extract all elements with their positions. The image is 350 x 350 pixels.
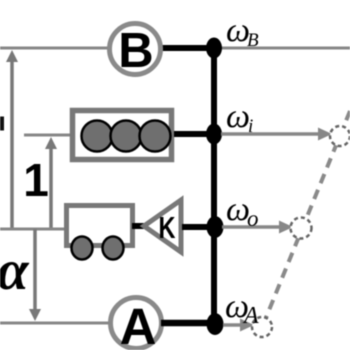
open circle i (projection point) <box>330 126 350 146</box>
wire: gray line left edge to circle B <box>0 47 110 50</box>
wire: gray line node B to right edge <box>216 47 350 50</box>
svg-text:A: A <box>120 298 157 350</box>
circle A <box>111 298 162 350</box>
cart (output carriage) <box>67 206 133 260</box>
gear circle 1 <box>82 121 113 152</box>
svg-text:B: B <box>118 24 153 78</box>
cart wheel 1 <box>72 237 93 260</box>
gray arrow node i to open circle i <box>221 128 332 141</box>
wire: black link circle B to node B <box>160 45 212 51</box>
open circle o (projection point) <box>291 218 312 239</box>
wire: black link K to node o <box>182 224 212 230</box>
dimension label fragment at left edge <box>0 117 4 131</box>
node i (dot) <box>206 124 222 145</box>
svg-text:ωi: ωi <box>226 98 253 137</box>
wire: gray line left edge to circle A <box>0 322 111 325</box>
dimension line x=35 (alpha, omega_o to A level) with down arrow <box>29 229 41 321</box>
node B (dot) <box>206 38 222 59</box>
dimension line x=12 (B to omega_o level) with up arrow <box>6 50 18 229</box>
horizontal gray connector at omega_o level, left <box>0 228 64 231</box>
amplifier K (left-pointing triangle) <box>144 200 181 252</box>
dimension line x=51 ("1", omega_i to omega_o level) with up arrow <box>45 137 57 229</box>
dashed lever line through open circles <box>263 111 350 325</box>
cart wheel 2 <box>103 237 124 260</box>
gear circle 2 <box>111 121 142 152</box>
svg-text:α: α <box>0 239 30 302</box>
circle B <box>110 24 161 79</box>
node B vertical lever bar <box>211 48 217 324</box>
svg-text:K: K <box>159 210 176 245</box>
wire: black link gear box to node i <box>174 131 212 137</box>
gear circle 3 <box>140 121 171 152</box>
svg-text:1: 1 <box>23 154 49 206</box>
gear block (three planets) <box>73 111 172 160</box>
node o (dot) <box>207 216 224 238</box>
gray arrow node A to open circle A <box>223 319 254 332</box>
wire: short gray line to gear box (omega_i level) <box>24 134 70 137</box>
open circle A (projection point) <box>252 317 272 337</box>
wire: black link circle A to node A <box>161 320 212 327</box>
node A (dot) <box>207 313 224 335</box>
gray arrow node o to open circle o <box>222 221 293 234</box>
wire: black link cart to amplifier K <box>132 223 148 229</box>
